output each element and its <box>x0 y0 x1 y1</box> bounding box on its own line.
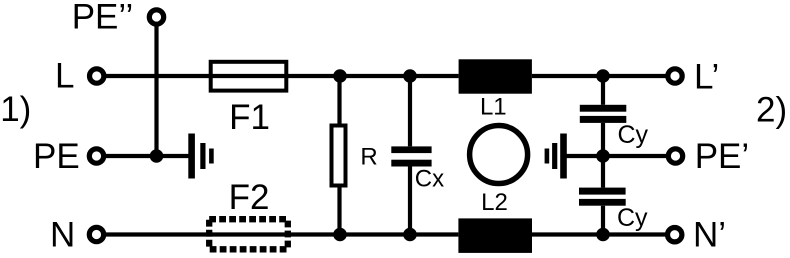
junction PE' node <box>596 149 610 163</box>
junction on L at R branch <box>333 69 347 83</box>
svg-text:Cx: Cx <box>415 165 444 192</box>
ground right bar 3 <box>545 149 550 164</box>
svg-text:F1: F1 <box>229 98 270 137</box>
ground left bar 1 <box>188 134 195 179</box>
fuse F2 (dashed) <box>209 219 288 249</box>
wire ground to PE' <box>566 154 675 158</box>
junction on L at Cx branch <box>403 69 417 83</box>
wire Cx branch upper <box>408 76 412 146</box>
svg-text:PE: PE <box>33 137 80 176</box>
ground right bar 1 <box>560 134 567 179</box>
wire N line right segment <box>532 232 675 236</box>
common-mode choke core <box>470 126 528 184</box>
terminal N <box>89 227 103 241</box>
junction PE node <box>150 149 164 163</box>
svg-text:1): 1) <box>0 90 31 129</box>
terminal L' <box>668 69 682 83</box>
terminal N' <box>668 228 682 242</box>
capacitor Cx bottom plate <box>391 160 431 167</box>
junction on N at Cx branch <box>403 228 417 242</box>
svg-text:L1: L1 <box>480 94 507 121</box>
terminal PE' <box>668 149 682 163</box>
wire Cx branch lower <box>408 167 412 235</box>
wire R branch upper <box>337 76 341 125</box>
capacitor Cy top, upper plate <box>580 105 627 112</box>
capacitor Cx top plate <box>391 146 431 153</box>
wire Cy branch lower <box>601 206 605 235</box>
svg-text:PE’: PE’ <box>695 137 749 176</box>
svg-text:Cy: Cy <box>618 121 649 149</box>
svg-text:N’: N’ <box>693 216 726 255</box>
terminal L <box>90 69 104 83</box>
capacitor Cy top, lower plate <box>580 116 627 123</box>
wire R branch lower <box>337 186 341 235</box>
svg-text:L2: L2 <box>481 189 508 216</box>
capacitor Cy bottom, upper plate <box>579 188 626 195</box>
inductor L2 winding <box>458 218 532 253</box>
svg-text:Cy: Cy <box>617 204 648 232</box>
ground left bar 3 <box>209 149 214 164</box>
svg-text:F2: F2 <box>229 178 270 217</box>
wire PE to ground <box>97 154 189 158</box>
junction on L at Cy branch <box>596 69 610 83</box>
svg-text:N: N <box>50 216 75 255</box>
wire L line right segment <box>532 74 675 78</box>
resistor R <box>332 126 346 186</box>
junction on N at R branch <box>333 228 347 242</box>
terminal PE <box>89 149 103 163</box>
inductor L1 winding <box>459 59 532 93</box>
svg-text:L’: L’ <box>694 58 719 97</box>
ground left bar 2 <box>200 143 205 169</box>
svg-text:R: R <box>360 144 377 171</box>
wire Cy branch upper <box>601 76 605 105</box>
terminal PE'' <box>149 10 163 24</box>
svg-text:2): 2) <box>756 91 787 130</box>
fuse F1 <box>211 62 287 91</box>
wire N line left segment <box>97 232 458 236</box>
svg-text:PE’’: PE’’ <box>72 0 134 37</box>
wire Cy branch middle <box>601 123 605 188</box>
junction on N at Cy branch <box>596 228 610 242</box>
wire PE'' vertical drop <box>154 25 158 156</box>
svg-text:L: L <box>55 57 74 96</box>
ground right bar 2 <box>552 143 557 169</box>
wire L line left segment <box>97 74 459 78</box>
capacitor Cy bottom, lower plate <box>579 199 626 206</box>
